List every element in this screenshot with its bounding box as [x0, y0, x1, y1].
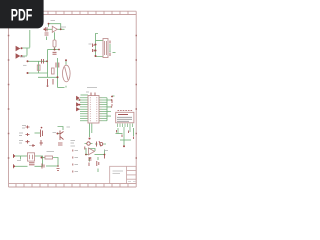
svg-text:PDF: PDF — [11, 6, 33, 24]
